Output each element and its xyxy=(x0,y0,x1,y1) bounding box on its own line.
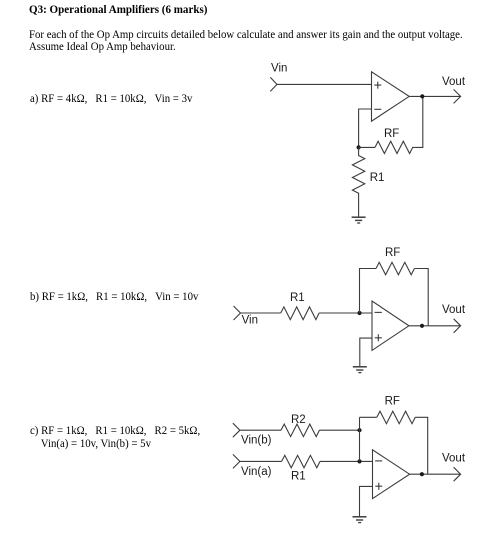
op-amp U2 (circuit b) xyxy=(372,301,409,350)
svg-text:R2: R2 xyxy=(291,414,306,426)
output terminal arrow (circuit c) xyxy=(454,467,461,481)
ground (circuit c) xyxy=(353,517,367,523)
node Vin(b) label (circuit c) xyxy=(241,435,272,447)
svg-text:R1: R1 xyxy=(290,292,305,304)
resistor R1 (circuit a) xyxy=(352,147,364,194)
wire summing vertical (circuit c) xyxy=(359,417,361,461)
label RF (circuit c) xyxy=(385,396,400,408)
wire + input to ground (circuit b) xyxy=(360,338,372,367)
wire RF to output (circuit b) xyxy=(414,269,428,326)
label RF (circuit a) xyxy=(384,128,399,140)
resistor RF (circuit c) xyxy=(377,411,415,424)
ground (circuit a) xyxy=(352,217,366,223)
wire R1 to - input (circuit c) xyxy=(320,460,373,462)
op-amp U1 (circuit a) xyxy=(372,72,410,121)
svg-text:R1: R1 xyxy=(291,471,306,483)
wire RF to output node (circuit a) xyxy=(415,96,422,147)
wire Vin to R1 (circuit b) xyxy=(241,312,281,314)
label R1 (circuit b) xyxy=(290,292,305,304)
resistor RF (circuit a) xyxy=(375,141,415,153)
node inverting junction (circuit c) xyxy=(357,459,361,463)
output terminal arrow (circuit a) xyxy=(454,89,461,103)
wire Vin(b) to R2 (circuit c) xyxy=(240,429,281,431)
wire junction to RF (circuit a) xyxy=(359,146,375,148)
svg-text:Vout: Vout xyxy=(442,452,466,464)
wire R1 to ground (circuit a) xyxy=(358,195,360,218)
node Vout label (circuit c) xyxy=(442,452,466,464)
wire RF to output (circuit c) xyxy=(415,417,428,474)
node Vin(a) label (circuit c) xyxy=(241,466,272,478)
svg-text:Vin: Vin xyxy=(271,62,287,74)
wire feedback up (circuit b) xyxy=(360,269,377,314)
node output junction (circuit b) xyxy=(420,324,424,328)
op-amp U3 (circuit c) xyxy=(373,450,410,499)
svg-text:Vout: Vout xyxy=(442,304,466,316)
node Vin label (circuit b) xyxy=(242,314,258,326)
input terminal chevron (circuit a) xyxy=(270,77,277,91)
wire R2 to summing node (circuit c) xyxy=(319,429,359,431)
svg-text:Vout: Vout xyxy=(442,76,466,88)
node inverting junction (circuit b) xyxy=(357,311,361,315)
label RF (circuit b) xyxy=(385,247,400,259)
svg-text:RF: RF xyxy=(385,247,400,259)
svg-text:RF: RF xyxy=(384,128,399,140)
resistor R2 (circuit c) xyxy=(281,424,319,437)
node R2 junction (circuit c) xyxy=(357,428,361,432)
svg-text:R1: R1 xyxy=(370,172,385,184)
resistor R1 (circuit c) xyxy=(282,455,320,468)
node output junction (circuit a) xyxy=(420,94,424,98)
node Vout label (circuit a) xyxy=(442,76,466,88)
input terminal chevron (circuit b) xyxy=(234,306,241,320)
input terminal chevron Vin(b) (circuit c) xyxy=(233,423,240,437)
resistor RF (circuit b) xyxy=(376,262,414,275)
label R1 (circuit a) xyxy=(370,172,385,184)
svg-text:Vin(a): Vin(a) xyxy=(241,466,272,478)
label R2 (circuit c) xyxy=(291,414,306,426)
svg-text:Vin: Vin xyxy=(242,314,258,326)
svg-text:RF: RF xyxy=(385,396,400,408)
wire R1 to - input (circuit b) xyxy=(319,312,372,314)
wire output (circuit c) xyxy=(410,473,461,475)
wire feedback top (circuit c) xyxy=(360,416,377,418)
input terminal chevron Vin(a) (circuit c) xyxy=(233,454,240,468)
wire Vin to + input (circuit a) xyxy=(277,83,372,85)
wire Vin(a) to R1 (circuit c) xyxy=(240,460,282,462)
node feedback junction (circuit a) xyxy=(357,145,361,149)
wire output (circuit b) xyxy=(409,325,461,327)
node output junction (circuit c) xyxy=(420,472,424,476)
wire output (circuit a) xyxy=(409,95,460,97)
wire + input to ground (circuit c) xyxy=(360,486,373,516)
svg-text:Vin(b): Vin(b) xyxy=(241,435,272,447)
ground (circuit b) xyxy=(353,367,367,373)
wire - input to feedback node (circuit a) xyxy=(359,109,372,147)
node Vin label (circuit a) xyxy=(271,62,287,74)
label R1 (circuit c) xyxy=(291,471,306,483)
output terminal arrow (circuit b) xyxy=(454,319,461,333)
resistor R1 (circuit b) xyxy=(281,307,319,320)
node Vout label (circuit b) xyxy=(442,304,466,316)
